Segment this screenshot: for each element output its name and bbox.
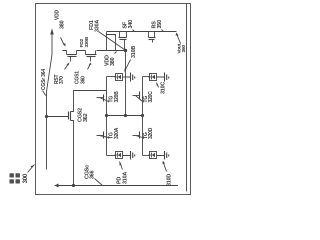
rail W2 (SF/RS output chain) [107, 31, 177, 33]
transistor RST Q1 [67, 54, 77, 56]
transistor TG320A [103, 132, 105, 139]
FD2 bus [107, 115, 143, 117]
ground PD310D [157, 151, 169, 160]
ground PD310A [123, 151, 135, 160]
transistor CGS2 [70, 112, 72, 121]
transistor SF [119, 37, 127, 39]
photodiode PD310A [116, 152, 123, 159]
svg-text:370: 370 [59, 76, 65, 84]
photodiode PD310C [150, 74, 157, 81]
CGSc line [55, 185, 179, 187]
label pixel-circuit 300 [10, 173, 20, 183]
node CGSr/CGS2 gate junction [45, 115, 48, 118]
Vout arrow + label [177, 34, 181, 44]
FD1 node [124, 49, 127, 52]
svg-text:320A: 320A [114, 127, 120, 139]
transistor TG320C [139, 92, 141, 100]
node CGS2 source on CGSc [72, 184, 75, 187]
svg-text:310D: 310D [167, 174, 173, 186]
svg-text:CGSr 364: CGSr 364 [41, 69, 47, 90]
ground PD310B [123, 73, 135, 82]
svg-text:300: 300 [23, 173, 29, 183]
svg-text:350: 350 [157, 20, 163, 29]
transistor TG320B [103, 95, 105, 102]
svg-text:VDD: VDD [55, 9, 61, 20]
transistor CGS1 Q2 [86, 54, 97, 56]
svg-text:340: 340 [128, 20, 134, 29]
svg-text:380: 380 [59, 20, 65, 29]
svg-text:330B: 330B [84, 36, 90, 47]
upper PD chain wire [106, 77, 108, 156]
svg-text:366: 366 [90, 170, 96, 179]
CGSr line [47, 30, 53, 170]
svg-text:320D: 320D [148, 127, 154, 139]
svg-text:362: 362 [83, 113, 89, 122]
Vout line [186, 4, 188, 192]
svg-text:320B: 320B [114, 91, 120, 103]
photodiode PD310B [116, 74, 123, 81]
svg-text:320C: 320C [148, 91, 154, 103]
svg-text:310C: 310C [161, 82, 167, 94]
transistor TG320D [139, 132, 141, 139]
svg-text:330A: 330A [95, 20, 101, 32]
svg-text:310A: 310A [123, 172, 129, 184]
photodiode PD310D [150, 152, 157, 159]
FD1-FD2 link wire [125, 51, 127, 116]
label arrow to frame [28, 165, 35, 173]
svg-text:380: 380 [110, 57, 116, 66]
lower PD chain wire [142, 77, 144, 156]
svg-text:360: 360 [80, 76, 86, 84]
svg-text:360: 360 [181, 45, 187, 53]
CGSc leader [95, 179, 103, 186]
transistor RS [149, 37, 156, 39]
VDD chain wire W1 [63, 50, 126, 52]
svg-text:310B: 310B [131, 46, 137, 58]
ground PD310C [157, 73, 169, 82]
VDD branch wires [106, 32, 108, 51]
